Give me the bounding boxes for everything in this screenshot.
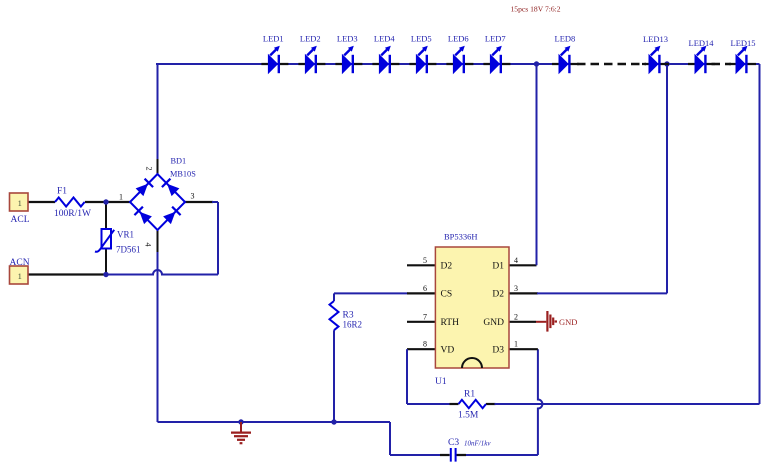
svg-text:F1: F1 — [57, 187, 67, 197]
wire C3 row right — [457, 454, 538, 456]
junction node A — [103, 199, 108, 204]
wire right vertical LED15 end down to R1 row — [759, 64, 761, 404]
wire top rail LED15 to right corner — [731, 63, 760, 65]
pin7 stub RTH — [407, 321, 435, 323]
wire dashed section LED8-LED13 — [577, 63, 646, 65]
LED LED13 — [642, 34, 669, 73]
svg-text:16R2: 16R2 — [343, 320, 363, 330]
svg-text:3: 3 — [514, 284, 518, 293]
wire ACL row: fuse to bridge pin1 — [85, 201, 130, 203]
diode D-BL (pin4 to pin1) — [134, 207, 152, 225]
svg-text:BP5336H: BP5336H — [444, 232, 478, 242]
LED LED1 — [261, 34, 288, 74]
svg-text:7D561: 7D561 — [116, 245, 141, 255]
LED LED15 — [729, 38, 756, 73]
varistor VR1 7D561 — [95, 229, 141, 255]
svg-text:3: 3 — [191, 192, 195, 201]
junction node B — [103, 272, 108, 277]
svg-text:4: 4 — [514, 256, 518, 265]
wire C3 row left — [390, 454, 450, 456]
wire left vertical from top rail to bridge pin2 — [157, 64, 159, 160]
LED LED3 — [335, 34, 362, 74]
wire ACL row: connector to fuse — [28, 201, 55, 203]
svg-text:2: 2 — [514, 312, 518, 321]
svg-text:LED5: LED5 — [411, 34, 432, 44]
bridge rectifier BD1 MB10S — [119, 157, 196, 247]
svg-text:8: 8 — [423, 340, 427, 349]
LED LED4 — [372, 34, 399, 74]
svg-text:VR1: VR1 — [117, 230, 134, 240]
earth ground symbol — [231, 422, 251, 443]
svg-text:LED4: LED4 — [374, 34, 396, 44]
pin1 stub D3 — [509, 348, 538, 350]
pin2 stub GND — [509, 321, 536, 323]
LED LED7 — [483, 34, 510, 74]
diode D-TL (pin1 to pin2) — [135, 179, 153, 197]
svg-text:MB10S: MB10S — [170, 170, 196, 179]
wire top LED rail left section — [156, 63, 577, 65]
svg-text:1: 1 — [514, 340, 518, 349]
LED LED5 — [409, 34, 436, 74]
svg-text:LED13: LED13 — [643, 34, 668, 44]
svg-text:LED7: LED7 — [485, 34, 506, 44]
wire LED13 junction vertical — [666, 64, 668, 293]
svg-text:5: 5 — [423, 256, 427, 265]
junction node C — [534, 61, 539, 66]
wire vertical x=218 from ACN row up to bridge pin3 stub — [217, 202, 219, 275]
wire dashed section LED14-LED15 — [712, 63, 732, 65]
wire top rail LED13-LED14 — [646, 63, 712, 65]
svg-text:R1: R1 — [464, 390, 475, 400]
LED LED2 — [298, 34, 325, 74]
op IC U1 BP5336H — [423, 232, 518, 388]
svg-text:1: 1 — [119, 193, 123, 202]
diode D-TR (pin3 to pin2) — [162, 179, 180, 197]
power ground GND (pin 2) — [536, 311, 577, 332]
junction node E — [331, 419, 336, 424]
svg-text:100R/1W: 100R/1W — [54, 209, 91, 219]
connector ACN pin box — [10, 258, 30, 284]
resistor R1 1.5M — [458, 390, 486, 421]
junction node D — [664, 61, 669, 66]
svg-text:VD: VD — [441, 345, 455, 355]
svg-text:D1: D1 — [492, 262, 504, 272]
pin8 stub VD — [407, 348, 435, 350]
svg-text:LED15: LED15 — [731, 38, 756, 48]
svg-text:RTH: RTH — [441, 318, 460, 328]
svg-text:GND: GND — [483, 318, 504, 328]
svg-text:6: 6 — [423, 284, 427, 293]
wire VD vertical down to R1 row — [406, 349, 408, 404]
svg-text:BD1: BD1 — [171, 157, 187, 166]
svg-text:2: 2 — [145, 167, 154, 171]
pin4 stub D1 — [509, 264, 537, 266]
wire ACN row: connector to VR1 junction — [28, 273, 106, 275]
svg-text:LED8: LED8 — [555, 34, 576, 44]
svg-text:ACL: ACL — [11, 215, 30, 225]
wire VR1 vertical branch — [105, 202, 107, 275]
svg-text:15pcs 18V 7:6:2: 15pcs 18V 7:6:2 — [511, 5, 561, 14]
svg-text:7: 7 — [423, 312, 427, 321]
LED LED14 — [688, 38, 715, 73]
wire D3 vertical with hop over R1 rail — [538, 349, 543, 455]
wire R1 row right to LED15 drop — [486, 403, 496, 405]
wire R3 vertical bottom to rail — [333, 330, 335, 422]
wire R3 top row to CS pin — [334, 292, 408, 294]
pin5 stub D2 — [407, 264, 435, 266]
LED LED8 — [552, 34, 579, 74]
capacitor C3 10nF/1kv — [440, 438, 491, 462]
svg-text:LED6: LED6 — [448, 34, 469, 44]
svg-text:10nF/1kv: 10nF/1kv — [464, 440, 491, 448]
wire bridge minus vertical down to bottom rail — [157, 252, 159, 422]
svg-text:D2: D2 — [492, 290, 504, 300]
wire bridge pin3 stub — [185, 201, 213, 203]
resistor R3 16R2 — [330, 301, 363, 330]
wire R3 vertical top — [333, 293, 335, 301]
LED LED6 — [446, 34, 473, 74]
svg-text:LED2: LED2 — [300, 34, 321, 44]
wire pin3 to LED13 drop — [537, 292, 667, 294]
wire D1 vertical to top rail — [536, 64, 538, 265]
diode D-BR (pin4 to pin3) — [163, 207, 181, 225]
svg-text:LED3: LED3 — [337, 34, 358, 44]
svg-text:D3: D3 — [492, 345, 504, 355]
svg-text:1: 1 — [18, 271, 22, 281]
connector ACL pin box — [10, 193, 30, 225]
junction node F — [238, 419, 243, 424]
svg-text:C3: C3 — [448, 438, 459, 448]
svg-text:4: 4 — [144, 243, 153, 247]
svg-text:ACN: ACN — [10, 258, 30, 268]
svg-text:CS: CS — [441, 290, 453, 300]
svg-text:D2: D2 — [441, 262, 453, 272]
wire bridge pin4 stub down — [157, 230, 159, 253]
wire ACN row with hop over bridge-minus wire, to x=218 — [106, 270, 218, 275]
svg-text:U1: U1 — [435, 377, 447, 387]
svg-text:LED14: LED14 — [689, 38, 715, 48]
wire bottom rail drop to C3 row — [389, 422, 391, 455]
svg-text:1.5M: 1.5M — [458, 411, 479, 421]
wire bottom ground rail — [158, 421, 391, 423]
pin3 stub D2out — [509, 292, 538, 294]
svg-text:GND: GND — [559, 317, 577, 327]
svg-text:1: 1 — [18, 198, 22, 208]
fuse F1 100R/1W — [54, 187, 91, 220]
wire R1 row left — [407, 403, 451, 405]
svg-text:LED1: LED1 — [263, 34, 284, 44]
